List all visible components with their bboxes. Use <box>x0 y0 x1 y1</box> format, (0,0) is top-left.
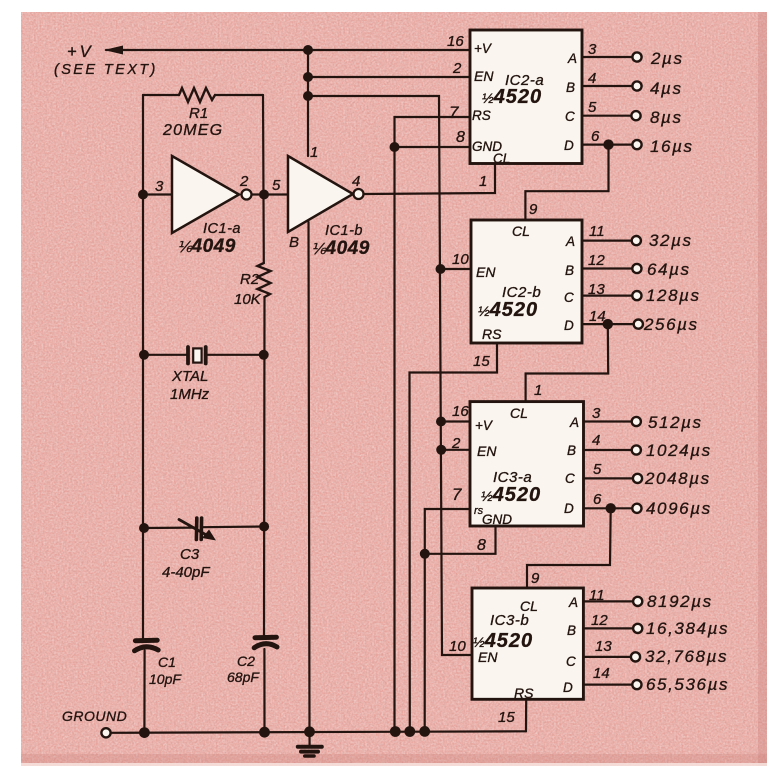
wire RS IC2-a pin7 <box>395 117 471 732</box>
svg-text:12: 12 <box>591 612 608 629</box>
svg-text:4096µs: 4096µs <box>646 499 712 518</box>
svg-text:D: D <box>564 318 574 333</box>
svg-text:RS: RS <box>472 108 491 123</box>
svg-text:1: 1 <box>534 382 542 399</box>
resistor R2 <box>258 263 271 297</box>
svg-text:RS: RS <box>482 326 502 342</box>
svg-text:C: C <box>565 471 575 486</box>
wire IC1-b output clock line <box>364 164 495 195</box>
junction GND/RS IC2-a <box>390 142 400 152</box>
IC3-a output terminals <box>632 417 642 513</box>
svg-text:R2: R2 <box>240 271 260 288</box>
svg-text:(SEE TEXT): (SEE TEXT) <box>54 62 158 78</box>
junction +V IC3-a <box>436 417 446 427</box>
svg-text:R1: R1 <box>189 105 208 122</box>
svg-text:EN: EN <box>478 649 498 665</box>
svg-text:8µs: 8µs <box>650 108 683 127</box>
wire EN stub IC2-b pin10 <box>441 268 472 270</box>
svg-text:32µs: 32µs <box>649 231 693 250</box>
svg-text:10: 10 <box>449 638 466 655</box>
svg-text:RS: RS <box>514 685 534 701</box>
svg-text:5: 5 <box>588 99 597 116</box>
svg-text:IC3-b: IC3-b <box>490 612 529 629</box>
svg-text:256µs: 256µs <box>643 315 699 334</box>
svg-text:⅙4049: ⅙4049 <box>177 236 236 257</box>
junction dots on +V bus <box>303 45 313 101</box>
svg-text:+V: +V <box>67 43 94 61</box>
wire +V stub IC3-a pin16 <box>441 420 470 422</box>
svg-text:IC1-a: IC1-a <box>203 221 241 237</box>
junction IC2-a D <box>603 139 613 149</box>
capacitor C1 symbol <box>135 638 157 644</box>
op-amp U IC1-a inverter triangle <box>172 156 239 233</box>
IC3-a output pin wires A B C D <box>584 420 632 422</box>
node IC1-a output bubble <box>242 190 252 200</box>
junction node between inverters <box>259 190 269 200</box>
IC box U IC3-b <box>472 588 583 699</box>
node GROUND terminal <box>101 728 110 737</box>
svg-text:32,768µs: 32,768µs <box>645 647 728 666</box>
junctions XTAL row <box>139 350 149 360</box>
svg-text:C: C <box>565 109 575 124</box>
svg-text:8: 8 <box>477 537 486 554</box>
svg-text:XTAL: XTAL <box>171 368 208 385</box>
svg-text:B: B <box>567 623 576 638</box>
capacitor C3 variable symbol <box>195 518 199 540</box>
svg-text:4-40pF: 4-40pF <box>162 564 210 581</box>
svg-text:9: 9 <box>531 570 540 587</box>
wire GND stub IC3-a pin8 <box>425 526 496 554</box>
wire +V vertical into IC1-b pin1 <box>307 50 309 156</box>
svg-text:512µs: 512µs <box>648 413 703 432</box>
svg-text:4: 4 <box>352 173 360 190</box>
wire RS/GND IC3-a chain <box>425 509 470 731</box>
svg-text:EN: EN <box>477 443 497 459</box>
svg-text:6: 6 <box>591 128 600 145</box>
junction IC2-b D <box>603 319 613 329</box>
ground symbol <box>308 732 310 746</box>
svg-text:CL: CL <box>510 405 528 421</box>
svg-text:3: 3 <box>592 405 601 422</box>
svg-text:A: A <box>565 234 575 249</box>
svg-text:½4520: ½4520 <box>482 86 542 108</box>
svg-text:A: A <box>568 595 578 610</box>
crystal XTAL symbol <box>186 347 190 364</box>
svg-text:2048µs: 2048µs <box>644 469 711 488</box>
svg-text:6: 6 <box>593 491 602 508</box>
resistor R1 <box>179 88 215 102</box>
svg-text:8: 8 <box>456 129 465 146</box>
svg-text:2µs: 2µs <box>650 49 684 68</box>
wire IC1 VSS to ground <box>309 222 310 732</box>
TEXT LAYER <box>54 33 729 726</box>
IC3-b output pin wires A B C D <box>583 600 633 602</box>
svg-text:10: 10 <box>452 251 469 268</box>
svg-text:16: 16 <box>452 403 469 420</box>
svg-text:7: 7 <box>452 485 462 504</box>
svg-text:½4520: ½4520 <box>481 484 541 506</box>
wire EN stub IC3-a pin2 <box>441 449 470 451</box>
svg-text:128µs: 128µs <box>646 286 701 305</box>
svg-text:65,536µs: 65,536µs <box>646 675 729 694</box>
svg-text:2: 2 <box>451 435 461 452</box>
svg-text:+V: +V <box>474 41 493 56</box>
wire +V bus third line <box>308 96 472 655</box>
wire RS IC3-b pin15 stub <box>525 699 527 731</box>
svg-text:1024µs: 1024µs <box>646 441 712 460</box>
svg-text:D: D <box>564 138 574 153</box>
IC box U IC2-b <box>471 220 582 343</box>
node IC1-b output bubble <box>354 189 364 199</box>
svg-text:10K: 10K <box>234 291 262 308</box>
svg-text:68pF: 68pF <box>227 669 260 685</box>
svg-text:16,384µs: 16,384µs <box>646 619 729 638</box>
IC box U IC2-a <box>470 30 582 164</box>
svg-text:A: A <box>569 415 579 430</box>
IC box U IC3-a <box>470 402 584 526</box>
svg-text:⅙4049: ⅙4049 <box>311 238 370 259</box>
junction input IC1-a <box>138 190 148 200</box>
svg-text:1: 1 <box>479 173 487 190</box>
svg-text:A: A <box>567 51 577 66</box>
wire +V top line <box>106 49 470 51</box>
wire right rail <box>262 95 265 263</box>
IC2-b output pin wires A B C D <box>582 240 632 242</box>
wire RS IC2-b pin15 chain <box>410 343 498 732</box>
svg-text:EN: EN <box>474 68 494 84</box>
junction IC3-a D <box>606 503 616 513</box>
svg-text:D: D <box>564 501 574 516</box>
wire GND IC2-a pin8 <box>395 146 471 148</box>
wire CL chain IC2-a D to IC2-b pin9 <box>525 145 608 220</box>
svg-text:GROUND: GROUND <box>62 708 127 724</box>
svg-text:11: 11 <box>589 587 605 604</box>
svg-text:CL: CL <box>512 223 530 239</box>
svg-text:5: 5 <box>593 461 602 478</box>
svg-text:B: B <box>289 234 299 251</box>
svg-text:15: 15 <box>473 353 490 370</box>
svg-text:8192µs: 8192µs <box>647 592 713 611</box>
wire ground bus <box>111 731 526 733</box>
svg-text:3: 3 <box>155 178 164 195</box>
svg-text:20MEG: 20MEG <box>162 122 223 139</box>
IC2-a output pin wires A B C D <box>582 56 633 58</box>
svg-text:64µs: 64µs <box>647 260 691 279</box>
svg-text:13: 13 <box>588 281 605 298</box>
svg-text:4: 4 <box>588 70 596 87</box>
svg-text:2: 2 <box>239 173 249 190</box>
svg-text:13: 13 <box>595 638 612 655</box>
capacitor C2 symbol <box>255 635 276 641</box>
svg-text:C1: C1 <box>158 654 176 670</box>
svg-text:5: 5 <box>272 177 281 194</box>
svg-text:D: D <box>563 680 573 695</box>
wire CL chain IC3-a D to IC3-b pin9 <box>527 508 611 588</box>
svg-text:4: 4 <box>592 432 600 449</box>
svg-text:B: B <box>565 263 574 278</box>
svg-text:14: 14 <box>593 665 610 682</box>
wire IC1-a output to IC1-b input <box>252 193 288 195</box>
svg-text:11: 11 <box>589 223 605 240</box>
svg-text:15: 15 <box>498 709 515 726</box>
svg-text:GND: GND <box>482 512 512 527</box>
svg-text:IC1-b: IC1-b <box>325 223 363 239</box>
svg-text:C2: C2 <box>237 653 255 669</box>
svg-text:C3: C3 <box>180 546 200 563</box>
IC3-b output terminals <box>631 597 642 689</box>
junction EN IC3-a <box>436 445 446 455</box>
svg-text:14: 14 <box>589 308 606 325</box>
svg-text:2: 2 <box>452 60 462 77</box>
svg-text:½4520: ½4520 <box>478 299 538 321</box>
wire IC1-a input <box>143 193 172 195</box>
svg-text:B: B <box>566 80 575 95</box>
svg-text:3: 3 <box>588 41 597 58</box>
junction RS/GND IC3-a <box>420 549 430 559</box>
svg-text:B: B <box>567 443 576 458</box>
svg-text:1MHz: 1MHz <box>170 386 210 403</box>
svg-text:+V: +V <box>475 418 494 433</box>
svg-text:EN: EN <box>476 264 496 280</box>
wire left rail <box>142 95 144 638</box>
svg-text:C: C <box>564 290 574 305</box>
op-amp U IC1-b inverter triangle <box>288 156 353 232</box>
node +V arrow head <box>104 46 123 55</box>
svg-text:C: C <box>566 654 576 669</box>
wire R1 top segments <box>143 94 179 96</box>
svg-text:16: 16 <box>447 33 464 50</box>
junction EN IC2-b <box>436 264 446 274</box>
svg-text:1: 1 <box>310 144 318 161</box>
svg-text:9: 9 <box>529 201 538 218</box>
capacitor C3 wires <box>144 526 195 529</box>
wire CL chain IC2-b D to IC3-a pin1 <box>526 324 609 402</box>
svg-text:10pF: 10pF <box>149 671 182 687</box>
junctions C3 row <box>139 523 149 533</box>
IC2-b output terminals <box>632 236 643 329</box>
svg-text:4µs: 4µs <box>650 79 683 98</box>
junction dots on ground bus <box>139 726 430 738</box>
wire EN line to IC2-a pin2 <box>308 76 470 78</box>
svg-text:7: 7 <box>449 103 459 122</box>
svg-text:16µs: 16µs <box>650 137 694 156</box>
svg-text:CL: CL <box>493 151 510 166</box>
svg-text:12: 12 <box>588 252 605 269</box>
crystal XTAL wires <box>144 354 188 356</box>
IC2-a output terminals <box>631 52 641 149</box>
